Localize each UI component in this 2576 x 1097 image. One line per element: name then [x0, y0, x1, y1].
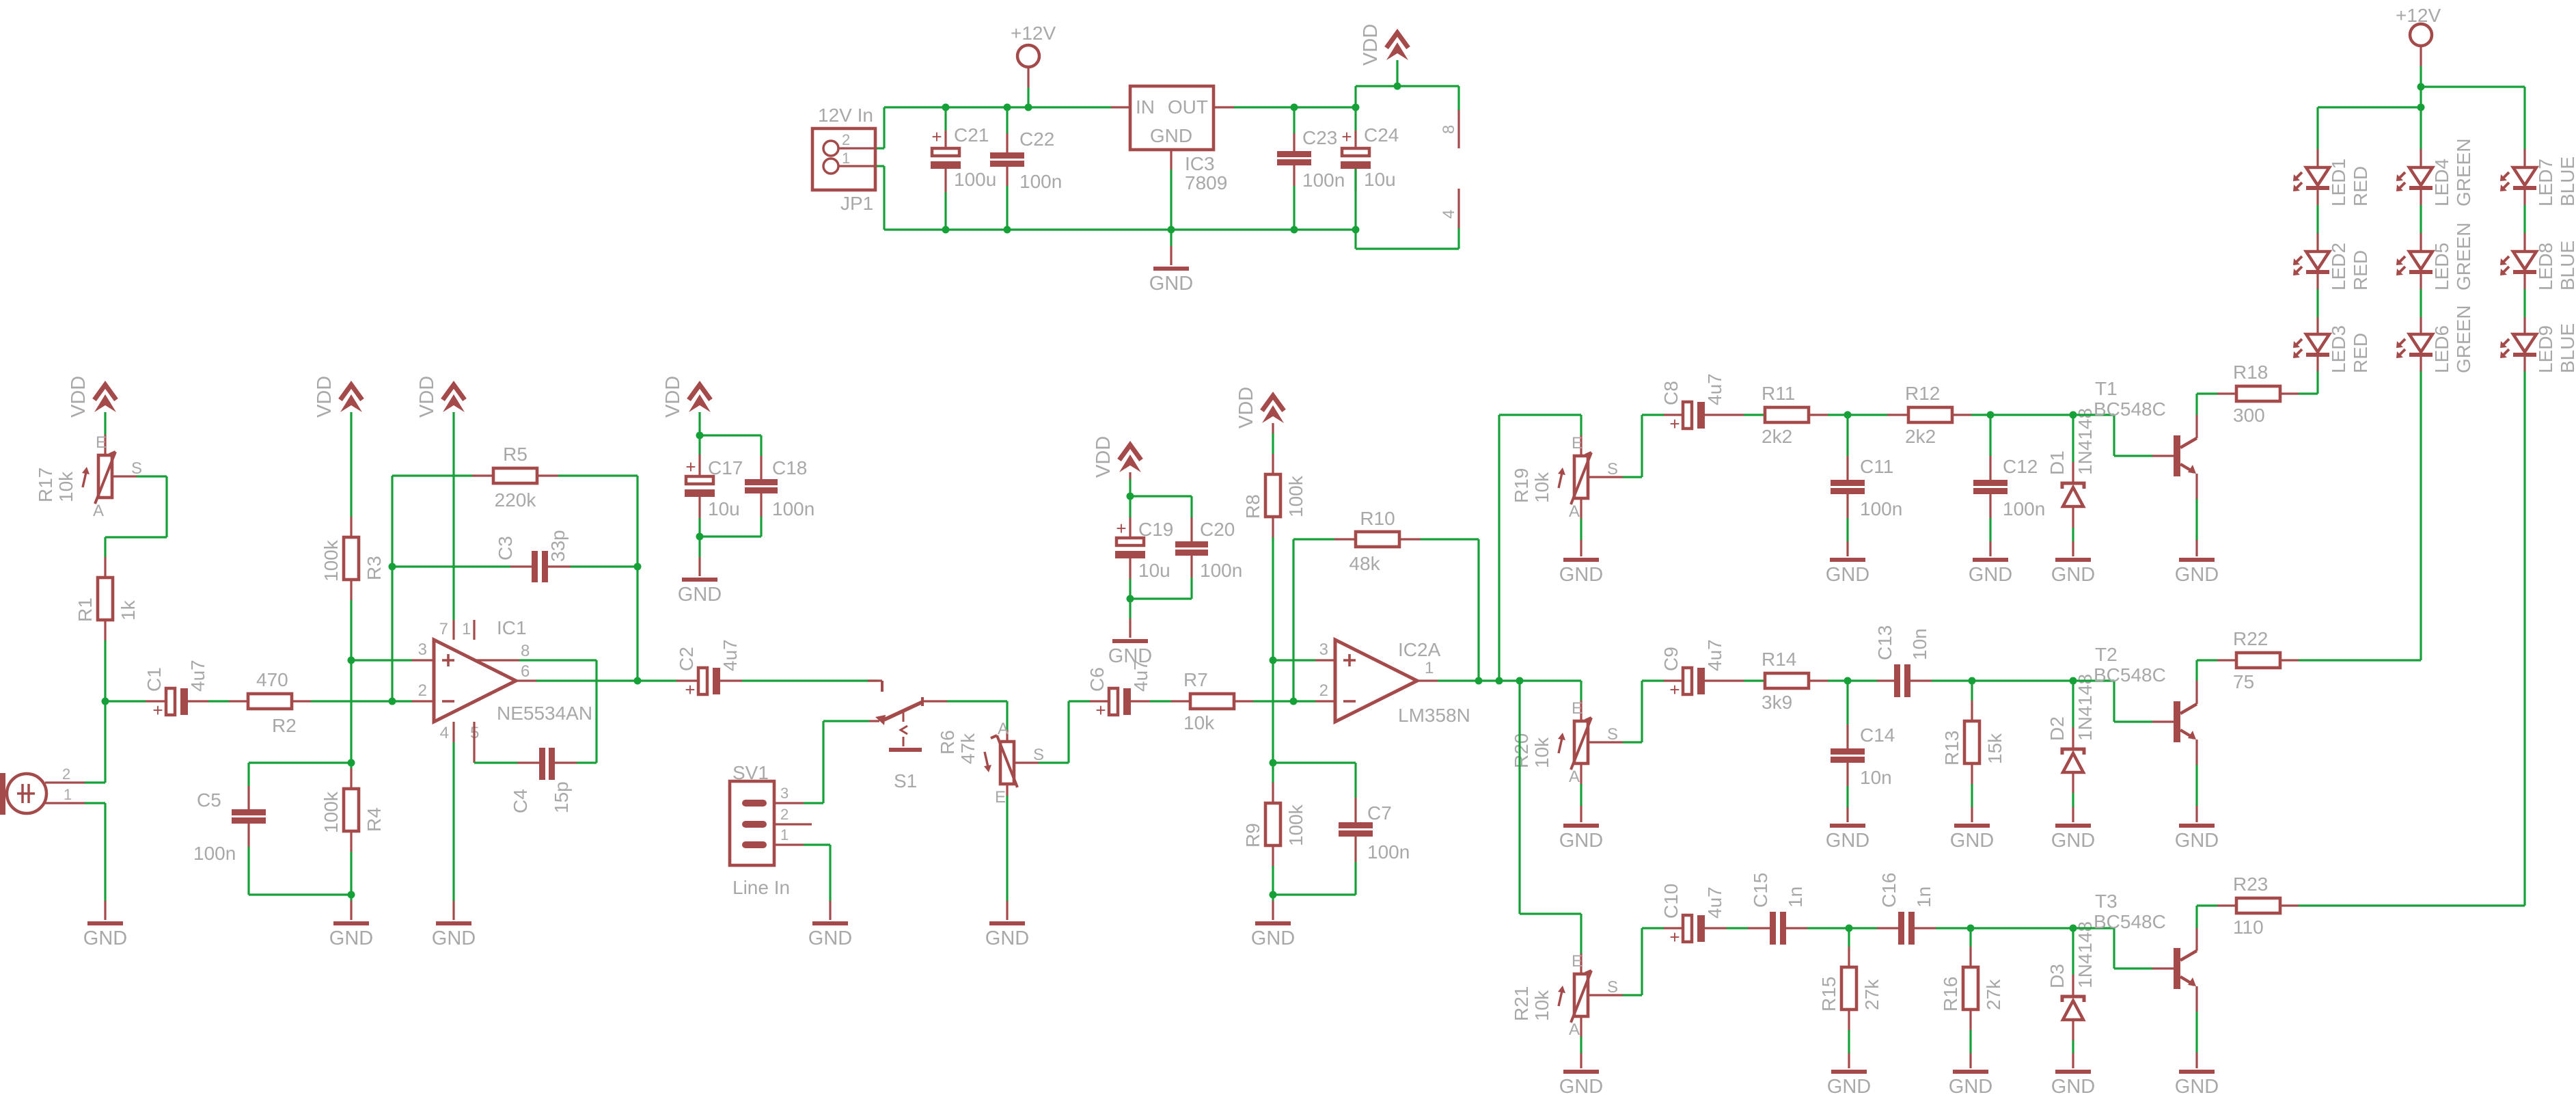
- svg-text:220k: 220k: [495, 489, 537, 511]
- svg-text:10k: 10k: [55, 471, 77, 502]
- connector SV1 Line In: [730, 762, 812, 898]
- resistor R13 15k: [1941, 681, 2005, 822]
- svg-text:R10: R10: [1360, 508, 1395, 529]
- svg-text:RED: RED: [2350, 250, 2371, 290]
- op-amp IC1 NE5534AN: [418, 617, 592, 742]
- svg-text:C10: C10: [1660, 884, 1682, 919]
- wire - +12V to LED4 column: [2420, 87, 2422, 167]
- svg-text:R12: R12: [1905, 383, 1940, 404]
- transistor T2 BC548C: [2094, 644, 2197, 742]
- wire - R7 to IC2A inverting input: [1234, 700, 1335, 702]
- svg-text:10u: 10u: [708, 498, 740, 519]
- svg-text:C13: C13: [1874, 625, 1895, 660]
- node - LED rail junctions: [2417, 83, 2425, 111]
- node - IC2A input junctions: [1270, 657, 1298, 899]
- svg-text:1k: 1k: [118, 599, 139, 621]
- wire - T1 emitter to ground: [2195, 474, 2197, 556]
- svg-text:R18: R18: [2233, 362, 2268, 383]
- svg-text:D2: D2: [2046, 716, 2068, 741]
- svg-text:A: A: [998, 720, 1009, 738]
- capacitor C7 100n: [1273, 763, 1410, 895]
- svg-text:GND: GND: [329, 927, 373, 949]
- svg-text:BLUE: BLUE: [2557, 241, 2576, 290]
- resistor R10 48k feedback: [1293, 508, 1479, 701]
- ground symbol GND (R9): [1251, 921, 1295, 949]
- ground symbol GND (T1): [2175, 558, 2219, 586]
- svg-text:LED4: LED4: [2431, 159, 2452, 206]
- wire - output riser to channel 1: [1499, 415, 1581, 681]
- wire - T1 collector to R18: [2195, 394, 2197, 438]
- diode D2 1N4148: [2046, 674, 2096, 822]
- svg-text:1: 1: [1425, 659, 1434, 677]
- resistor R18 300: [2197, 362, 2318, 426]
- svg-text:LED5: LED5: [2431, 243, 2452, 290]
- svg-text:IC2A: IC2A: [1398, 639, 1441, 660]
- svg-text:GND: GND: [1251, 927, 1295, 949]
- svg-text:2: 2: [1319, 681, 1328, 700]
- +12V supply pad (LED array): [2396, 5, 2441, 87]
- svg-text:100n: 100n: [1200, 560, 1242, 581]
- svg-text:10k: 10k: [1531, 990, 1552, 1021]
- svg-text:GND: GND: [432, 927, 476, 949]
- wire - T2 emitter to ground: [2195, 740, 2197, 822]
- svg-text:GND: GND: [2175, 1076, 2219, 1097]
- svg-text:A: A: [1569, 768, 1580, 786]
- svg-text:1n: 1n: [1913, 886, 1934, 908]
- wire - LED3 cathode to R18: [2316, 357, 2318, 394]
- svg-text:R3: R3: [364, 556, 385, 580]
- wire - bias node to non-inverting input: [351, 659, 434, 661]
- capacitor C22 100n: [990, 107, 1062, 230]
- svg-text:RED: RED: [2350, 333, 2371, 373]
- wire - LED9 cathode to R23: [2523, 357, 2525, 906]
- ground symbol GND (R19): [1559, 558, 1603, 586]
- svg-text:6: 6: [521, 662, 530, 681]
- svg-text:R21: R21: [1511, 986, 1532, 1021]
- ground symbol GND (R20): [1559, 824, 1603, 852]
- node - C17 C18 junctions: [696, 432, 704, 541]
- svg-text:15p: 15p: [551, 781, 572, 813]
- svg-text:C5: C5: [197, 789, 221, 811]
- svg-text:R23: R23: [2233, 873, 2268, 895]
- wire - IC2A output node: [1417, 679, 1581, 681]
- svg-text:R19: R19: [1511, 468, 1532, 503]
- resistor R14 3k9: [1762, 649, 1848, 713]
- wire - channel 2 feed to R20: [1580, 681, 1582, 721]
- ground symbol GND (C17): [678, 578, 722, 606]
- svg-text:2: 2: [780, 806, 789, 823]
- ground symbol GND (C11): [1826, 558, 1869, 586]
- resistor R9 100k: [1242, 763, 1306, 895]
- svg-text:100k: 100k: [320, 791, 342, 833]
- capacitor C6 4u7: [1086, 660, 1190, 720]
- wire - R3 to bias node at pin 3: [350, 580, 352, 660]
- svg-text:4: 4: [1440, 210, 1458, 219]
- LED LED1 RED: [2293, 159, 2371, 206]
- svg-text:GND: GND: [1826, 830, 1869, 852]
- resistor R8 100k: [1242, 474, 1306, 519]
- wire - R19 A to ground: [1580, 498, 1582, 556]
- resistor R7 10k: [1183, 669, 1234, 733]
- wire - +12V to LED7 column: [2421, 87, 2525, 167]
- svg-text:VDD: VDD: [314, 376, 335, 418]
- svg-text:+: +: [685, 457, 696, 477]
- svg-text:Line In: Line In: [732, 877, 790, 898]
- svg-text:100k: 100k: [320, 539, 342, 582]
- svg-text:C24: C24: [1364, 124, 1399, 146]
- diode D1 1N4148: [2046, 408, 2096, 556]
- wire - R21 wiper to C10: [1589, 928, 1683, 995]
- svg-text:LM358N: LM358N: [1398, 705, 1470, 726]
- wire - top +12V rail from JP1 pin 2 to IC3 IN: [877, 107, 1111, 148]
- wire - LED4 cathode to LED5 anode: [2420, 190, 2422, 252]
- connector JP1 (12V In): [812, 105, 877, 214]
- wire - R4 bottom to ground: [350, 895, 352, 920]
- wire - +12V to LED1 column: [2318, 107, 2421, 167]
- svg-text:C17: C17: [708, 457, 743, 478]
- svg-text:T3: T3: [2095, 891, 2118, 912]
- svg-text:C15: C15: [1750, 873, 1771, 908]
- potentiometer R6 47k: [937, 720, 1044, 807]
- LED LED4 GREEN: [2396, 138, 2474, 206]
- ground symbol GND (R6): [985, 921, 1029, 949]
- svg-text:A: A: [1569, 502, 1580, 521]
- svg-text:C6: C6: [1086, 667, 1108, 692]
- svg-text:R15: R15: [1818, 977, 1839, 1012]
- svg-text:R11: R11: [1762, 383, 1795, 404]
- op-amp IC1 output to C2: [516, 679, 698, 681]
- capacitor C13 10n: [1848, 625, 1972, 697]
- wire - bias divider down to R4: [350, 660, 352, 763]
- resistor R3 100k: [320, 537, 385, 582]
- svg-text:GND: GND: [2051, 830, 2095, 852]
- svg-text:75: 75: [2233, 671, 2254, 692]
- svg-text:1: 1: [462, 620, 471, 638]
- capacitor C3 33p feedback: [392, 530, 638, 582]
- svg-text:3k9: 3k9: [1762, 692, 1792, 713]
- svg-text:IN: IN: [1136, 96, 1155, 118]
- potentiometer R17 10k: [35, 433, 142, 520]
- svg-text:GND: GND: [2175, 564, 2219, 586]
- svg-text:10u: 10u: [1364, 169, 1396, 190]
- ground symbol GND (D3): [2051, 1070, 2095, 1097]
- svg-text:S: S: [1607, 978, 1618, 997]
- svg-text:S: S: [131, 459, 142, 478]
- capacitor C14 10n: [1831, 681, 1895, 822]
- svg-text:48k: 48k: [1349, 553, 1380, 574]
- diode D3 1N4148: [2046, 921, 2096, 1068]
- svg-text:100k: 100k: [1285, 804, 1306, 846]
- svg-text:4u7: 4u7: [1704, 373, 1725, 405]
- svg-text:C9: C9: [1660, 647, 1682, 671]
- svg-text:GND: GND: [1950, 830, 1994, 852]
- ground symbol GND (D2): [2051, 824, 2095, 852]
- svg-text:C22: C22: [1019, 128, 1054, 150]
- capacitor C12 100n: [1973, 415, 2045, 556]
- wire - mic pin 1 to ground: [45, 803, 105, 920]
- wire - IC3 OUT to VDD node: [1234, 106, 1356, 108]
- svg-text:GND: GND: [1559, 830, 1603, 852]
- node - junction dots power rails: [942, 83, 1401, 234]
- ground symbol GND (SV1): [808, 921, 852, 949]
- node - IC2A output junctions: [1475, 677, 1524, 685]
- svg-text:E: E: [995, 788, 1006, 807]
- capacitor C2 4u7: [676, 639, 878, 700]
- svg-text:+: +: [152, 700, 163, 720]
- wire - C19/C20 to ground: [1129, 599, 1131, 638]
- svg-text:1: 1: [780, 826, 789, 843]
- node - C19 C20 junctions: [1127, 493, 1134, 603]
- svg-text:3: 3: [1319, 640, 1328, 659]
- capacitor C18 100n: [700, 435, 814, 537]
- svg-text:R1: R1: [74, 597, 96, 622]
- svg-text:GND: GND: [1559, 564, 1603, 586]
- ground symbol GND (R21): [1559, 1070, 1603, 1097]
- svg-text:1N4148: 1N4148: [2074, 408, 2096, 475]
- wire - R8 to non-inverting input node: [1272, 517, 1274, 660]
- svg-text:+: +: [1669, 414, 1680, 434]
- wire - SV1 pin 1 to ground: [804, 845, 830, 920]
- node - pin2 junction with feedback: [389, 563, 396, 705]
- wire - channel 3 to T3 base: [2073, 928, 2174, 969]
- wire - channel 2 to T2 base: [2073, 681, 2174, 722]
- svg-text:GREEN: GREEN: [2453, 305, 2474, 373]
- capacitor C21 100u: [931, 107, 996, 230]
- svg-text:NE5534AN: NE5534AN: [497, 703, 592, 724]
- svg-text:LED1: LED1: [2328, 159, 2349, 206]
- LED LED2 RED: [2293, 243, 2371, 290]
- svg-text:BC548C: BC548C: [2094, 664, 2166, 686]
- svg-text:4u7: 4u7: [720, 639, 741, 671]
- capacitor C15 1n: [1750, 873, 1849, 945]
- wire - bottom GND rail from JP1 pin 1: [877, 166, 1356, 230]
- svg-text:R7: R7: [1183, 669, 1208, 690]
- wire - channel 1 to T1 base: [2073, 415, 2174, 456]
- svg-text:R13: R13: [1941, 731, 1962, 766]
- IC2 power pins box (pins 8 and 4): [1356, 86, 1459, 249]
- svg-text:RED: RED: [2350, 166, 2371, 206]
- svg-text:R9: R9: [1242, 823, 1263, 848]
- svg-text:R14: R14: [1762, 649, 1796, 670]
- wire - R19 wiper to C8: [1589, 415, 1683, 477]
- svg-text:100n: 100n: [193, 843, 236, 864]
- svg-text:1: 1: [64, 786, 72, 803]
- svg-text:GND: GND: [1108, 645, 1152, 667]
- svg-text:100u: 100u: [954, 169, 996, 190]
- svg-text:VDD: VDD: [68, 376, 90, 418]
- LED LED7 BLUE: [2500, 157, 2576, 206]
- ground symbol GND (R15): [1827, 1070, 1871, 1097]
- resistor R5 220k feedback: [392, 444, 638, 511]
- wire - LED7 cathode to LED8 anode: [2523, 190, 2525, 252]
- wire - R9 bottom to ground: [1272, 895, 1274, 920]
- svg-text:+: +: [1341, 126, 1352, 147]
- svg-text:A: A: [93, 502, 104, 520]
- ground symbol GND (mic): [83, 921, 127, 949]
- svg-text:IC3: IC3: [1185, 153, 1215, 174]
- svg-text:D1: D1: [2046, 450, 2068, 475]
- svg-text:SV1: SV1: [732, 762, 769, 783]
- svg-text:E: E: [96, 433, 107, 452]
- svg-text:10u: 10u: [1138, 560, 1170, 581]
- potentiometer R21 10k: [1511, 952, 1618, 1039]
- svg-text:47k: 47k: [957, 733, 978, 764]
- svg-text:LED3: LED3: [2328, 325, 2349, 373]
- svg-text:GND: GND: [1827, 1076, 1871, 1097]
- svg-text:GND: GND: [985, 927, 1029, 949]
- svg-text:R2: R2: [272, 715, 297, 736]
- svg-text:R5: R5: [503, 444, 527, 465]
- resistor R16 27k: [1940, 928, 2004, 1068]
- op-amp IC1 pin 7 to VDD: [452, 412, 454, 640]
- svg-text:S: S: [1033, 746, 1044, 764]
- wire - VDD to R3: [350, 412, 352, 537]
- svg-text:C18: C18: [772, 457, 807, 478]
- svg-text:7809: 7809: [1185, 172, 1227, 193]
- switch S1: [868, 681, 922, 791]
- capacitor C9 4u7: [1660, 639, 1765, 700]
- wire - VDD to R17: [104, 412, 106, 455]
- microphone MIC: [0, 766, 72, 815]
- node - channel 2 junctions: [1844, 677, 2077, 685]
- node - channel 3 junctions: [1846, 925, 2077, 932]
- svg-text:IC1: IC1: [497, 617, 527, 638]
- svg-text:1N4148: 1N4148: [2074, 921, 2096, 988]
- svg-text:R17: R17: [35, 468, 56, 502]
- svg-text:E: E: [1572, 952, 1582, 971]
- svg-text:+12V: +12V: [2396, 5, 2441, 26]
- wire - switch pin 2 to R6: [924, 701, 1007, 742]
- wire - T2 collector to R22: [2195, 660, 2197, 704]
- svg-text:R8: R8: [1242, 494, 1263, 519]
- wire - SV1 pin 3 to switch pin 1: [804, 721, 879, 803]
- svg-text:4u7: 4u7: [187, 660, 208, 692]
- svg-text:C19: C19: [1138, 519, 1173, 540]
- VDD arrow above R3: [314, 376, 362, 418]
- wire - VDD to C19/C20 node: [1129, 472, 1131, 496]
- LED LED8 BLUE: [2500, 241, 2576, 290]
- svg-text:4u7: 4u7: [1704, 639, 1725, 671]
- svg-text:4u7: 4u7: [1704, 886, 1725, 919]
- capacitor C1 4u7: [105, 660, 248, 720]
- wire - output down-leg to channel 3: [1520, 681, 1581, 974]
- svg-text:S: S: [1607, 725, 1618, 744]
- ground - power supply GND: [1170, 230, 1172, 265]
- svg-text:GND: GND: [1949, 1076, 1992, 1097]
- svg-text:VDD: VDD: [416, 376, 438, 418]
- svg-text:10n: 10n: [1860, 767, 1892, 788]
- svg-text:+: +: [1669, 679, 1680, 700]
- node - channel 1 junctions: [1844, 411, 2077, 419]
- svg-text:8: 8: [1440, 125, 1458, 134]
- capacitor C11 100n: [1831, 415, 1902, 556]
- svg-text:GND: GND: [678, 584, 722, 606]
- svg-text:+: +: [685, 679, 695, 700]
- svg-text:3: 3: [780, 785, 789, 802]
- svg-text:BC548C: BC548C: [2094, 911, 2166, 932]
- svg-text:LED9: LED9: [2535, 325, 2556, 373]
- wire - R2 to inverting input node: [292, 700, 434, 702]
- wire - R17 wiper S jog to R1: [105, 476, 167, 578]
- LED LED3 RED: [2293, 325, 2371, 373]
- wire - VDD arrow to rail: [1396, 60, 1398, 86]
- svg-text:33p: 33p: [547, 530, 568, 562]
- capacitor C23 100n: [1277, 107, 1345, 230]
- svg-text:GND: GND: [2051, 564, 2095, 586]
- svg-text:27k: 27k: [1861, 979, 1882, 1010]
- svg-text:1n: 1n: [1785, 886, 1806, 908]
- wire - feedback left leg to pin 2: [391, 476, 393, 701]
- resistor R12 2k2: [1848, 383, 2073, 447]
- svg-text:VDD: VDD: [662, 376, 684, 418]
- transistor T3 BC548C: [2094, 891, 2197, 989]
- wire - LED1 cathode to LED2 anode: [2316, 190, 2318, 252]
- wire - R6 bottom E to ground: [1006, 784, 1008, 920]
- svg-text:2: 2: [62, 766, 70, 783]
- VDD arrow above R17: [68, 376, 116, 418]
- svg-text:R16: R16: [1940, 977, 1961, 1012]
- svg-text:1: 1: [842, 150, 850, 167]
- resistor R22 75: [2197, 628, 2421, 692]
- LED LED5 GREEN: [2396, 222, 2474, 290]
- wire - LED5 cathode to LED6 anode: [2420, 274, 2422, 334]
- svg-text:8: 8: [521, 642, 530, 660]
- svg-text:15k: 15k: [1984, 733, 2005, 764]
- svg-text:GREEN: GREEN: [2453, 138, 2474, 206]
- op-amp IC2A LM358N: [1319, 639, 1470, 726]
- svg-text:JP1: JP1: [840, 193, 873, 214]
- resistor R1 1k: [74, 578, 139, 622]
- svg-text:2: 2: [418, 681, 427, 700]
- svg-text:GND: GND: [808, 927, 852, 949]
- wire - T3 emitter to ground: [2195, 986, 2197, 1068]
- wire - bias node to IC2A pin 3: [1273, 659, 1335, 661]
- wire - T3 collector to R23: [2195, 906, 2197, 951]
- svg-text:C14: C14: [1860, 724, 1895, 746]
- capacitor C10 4u7: [1660, 884, 1770, 947]
- ground symbol GND (T2): [2175, 824, 2219, 852]
- wire - IC3 GND pin to ground rail: [1170, 170, 1172, 230]
- svg-text:+: +: [1669, 927, 1680, 947]
- resistor R11 2k2: [1762, 383, 1848, 447]
- svg-text:R20: R20: [1511, 733, 1532, 768]
- svg-text:10k: 10k: [1531, 737, 1552, 768]
- svg-text:T1: T1: [2095, 378, 2118, 399]
- node - feedback right junctions: [634, 563, 642, 685]
- svg-text:VDD: VDD: [1093, 436, 1114, 478]
- node - input node junction: [102, 698, 109, 705]
- wire - feedback right leg to output: [636, 476, 638, 681]
- ground symbol GND (R13): [1950, 824, 1994, 852]
- ground symbol GND (C14): [1826, 824, 1869, 852]
- svg-text:S1: S1: [894, 770, 917, 791]
- svg-text:C21: C21: [954, 124, 989, 146]
- svg-text:GND: GND: [1150, 125, 1192, 146]
- VDD arrow above C19: [1093, 436, 1141, 478]
- wire - VDD to R8: [1272, 423, 1274, 474]
- svg-text:A: A: [1569, 1020, 1580, 1039]
- LED LED9 BLUE: [2500, 323, 2576, 373]
- ground symbol GND (T3): [2175, 1070, 2219, 1097]
- svg-text:C20: C20: [1200, 519, 1235, 540]
- resistor R23 110: [2197, 873, 2525, 938]
- svg-text:100n: 100n: [2003, 498, 2045, 519]
- svg-text:BLUE: BLUE: [2557, 323, 2576, 373]
- svg-text:S: S: [1607, 460, 1618, 478]
- svg-text:VDD: VDD: [1235, 387, 1257, 429]
- svg-text:R22: R22: [2233, 628, 2268, 649]
- voltage regulator IC3 7809: [1111, 86, 1234, 193]
